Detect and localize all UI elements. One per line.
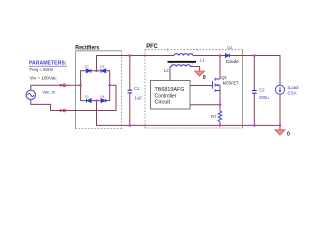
svg-text:Vac, in: Vac, in [42, 89, 56, 94]
svg-text:2: 2 [166, 48, 168, 52]
svg-text:2: 2 [191, 62, 193, 66]
svg-text:ILoad: ILoad [288, 85, 300, 90]
svg-text:Diode: Diode [226, 59, 240, 64]
svg-text:Controller: Controller [155, 93, 177, 99]
svg-text:L2: L2 [164, 68, 169, 73]
svg-text:1: 1 [170, 62, 172, 66]
svg-text:C1: C1 [134, 86, 140, 91]
svg-text:Freq = 50Hz: Freq = 50Hz [30, 67, 54, 73]
svg-text:1: 1 [196, 48, 198, 52]
svg-text:D3: D3 [100, 65, 104, 69]
svg-text:D4: D4 [100, 95, 104, 99]
svg-text:PARAMETERS:: PARAMETERS: [29, 61, 67, 67]
svg-text:Circuit: Circuit [155, 100, 171, 106]
svg-text:PFC: PFC [146, 43, 158, 50]
svg-text:R7: R7 [211, 114, 217, 119]
svg-text:200u: 200u [259, 95, 269, 100]
svg-text:0.5A: 0.5A [288, 91, 297, 96]
svg-text:L1: L1 [200, 58, 205, 63]
svg-text:Rectifiers: Rectifiers [75, 44, 99, 51]
svg-text:Q1: Q1 [221, 75, 227, 80]
svg-text:C2: C2 [259, 88, 265, 93]
svg-text:0: 0 [203, 75, 206, 81]
svg-text:D1: D1 [85, 65, 89, 69]
svg-text:1uF: 1uF [135, 96, 143, 101]
svg-text:MOSFET: MOSFET [223, 80, 239, 85]
svg-text:TB6819AFG: TB6819AFG [155, 87, 185, 93]
svg-text:D2: D2 [227, 45, 232, 50]
svg-text:D2: D2 [85, 95, 89, 99]
svg-text:Vin = 100Vac: Vin = 100Vac [30, 75, 58, 81]
svg-text:0: 0 [287, 132, 290, 138]
